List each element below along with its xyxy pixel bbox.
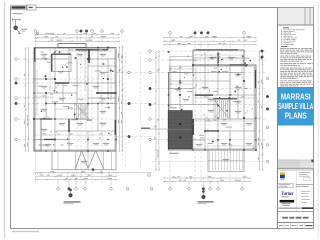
left plan top grid bubbles [34, 30, 37, 33]
consultant box [278, 183, 293, 188]
right plan left dimension band [155, 52, 157, 170]
right plan leader line [150, 128, 169, 130]
project number row [279, 208, 301, 209]
left plan yard gridlines [125, 52, 127, 170]
right plan interior dims [170, 68, 191, 70]
right plan title text [198, 201, 214, 202]
left plan door arcs [55, 84, 59, 88]
right plan left grid bubbles [149, 50, 152, 53]
right plan dark void rect [168, 111, 192, 149]
right plan stair hatch [213, 100, 215, 118]
plot stamp box 2 [27, 5, 36, 10]
svg-text:SAMPLE VILLA: SAMPLE VILLA [278, 101, 313, 111]
right plan heavy wall segments [195, 94, 213, 95]
right plan wing dark top edge [196, 49, 238, 50]
left plan heavy wall segments [88, 49, 90, 63]
left plan left dimension band [25, 48, 27, 151]
right plan top dimension band [164, 37, 256, 39]
left plan title symbol [69, 189, 71, 191]
right plan fixtures and labels [208, 89, 211, 92]
page right edge shadow [317, 2, 319, 238]
title block left border [277, 8, 279, 229]
right plan dark rect top label [170, 107, 177, 108]
left plan horizontal gridlines [18, 58, 116, 60]
right plan door arcs [193, 84, 197, 88]
left plan left notch [34, 119, 41, 151]
right plan title symbol [202, 190, 204, 192]
right plan right dimension band [259, 52, 261, 170]
page left edge shadow [4, 2, 6, 238]
left plan top bump [58, 44, 86, 48]
benchmark circle [36, 32, 39, 35]
right plan top wing [193, 50, 244, 65]
right plan bottom dimension band [164, 177, 250, 179]
left plan bottom grid bubbles [57, 188, 60, 191]
right plan interior partitions [179, 65, 181, 111]
right plan stair dark edge [213, 98, 237, 99]
Turner black bar [280, 200, 295, 203]
project title blue box [278, 87, 314, 126]
title block notes text [283, 27, 289, 28]
right plan room labels [183, 71, 189, 74]
right plan columns [168, 51, 170, 53]
left plan stair hatch [74, 103, 76, 120]
right plan horizontal gridlines [152, 50, 266, 52]
svg-text:Turner: Turner [281, 191, 294, 197]
right plan top-left balcony [170, 57, 193, 73]
right plan vertical gridlines [169, 36, 171, 183]
left plan interior dims [35, 58, 53, 60]
left plan interior partitions [54, 48, 56, 94]
right plan right grid bubbles [261, 50, 264, 53]
left plan title text [64, 201, 81, 202]
north arrow symbol [12, 13, 27, 34]
client logo [280, 172, 285, 174]
left plan fixtures and labels [52, 143, 55, 146]
right plan dark rect label [169, 153, 179, 154]
client logo text lines [299, 171, 311, 174]
svg-text:MARRASI: MARRASI [281, 91, 311, 101]
left plan vertical gridlines [34, 34, 36, 183]
left plan room labels [41, 53, 47, 56]
plot text bottom left [12, 231, 39, 232]
left plan top room dark edge [76, 49, 109, 50]
sheet title text [282, 217, 288, 219]
right plan bottom wing [208, 150, 244, 172]
left plan right grid bubbles [128, 71, 131, 74]
svg-text:PLANS: PLANS [285, 110, 307, 120]
right plan outer inner line [170, 66, 255, 149]
stamp gray band [278, 159, 314, 168]
logos column divider [295, 170, 297, 211]
plot stamp box 1 [11, 5, 27, 10]
left plan outer wall [34, 48, 116, 152]
right plan bottom grid bubbles [148, 174, 151, 177]
right plan top grid bubbles [169, 32, 172, 35]
right plan outer wall main [169, 65, 257, 150]
right column small text [301, 190, 310, 193]
left plan left grid bubbles [15, 58, 18, 61]
left plan right dimension band [119, 47, 121, 151]
title block header cell [278, 8, 313, 25]
left plan top dimension band [35, 34, 119, 36]
bottom info row [279, 224, 284, 227]
left plan columns [33, 92, 34, 93]
left plan outer wall inner line [35, 49, 115, 150]
left plan porch with trusses [52, 151, 116, 170]
left plan top-left room [52, 54, 72, 72]
left plan bottom dimension band [36, 172, 116, 174]
right plan terrace hatch [209, 151, 211, 170]
